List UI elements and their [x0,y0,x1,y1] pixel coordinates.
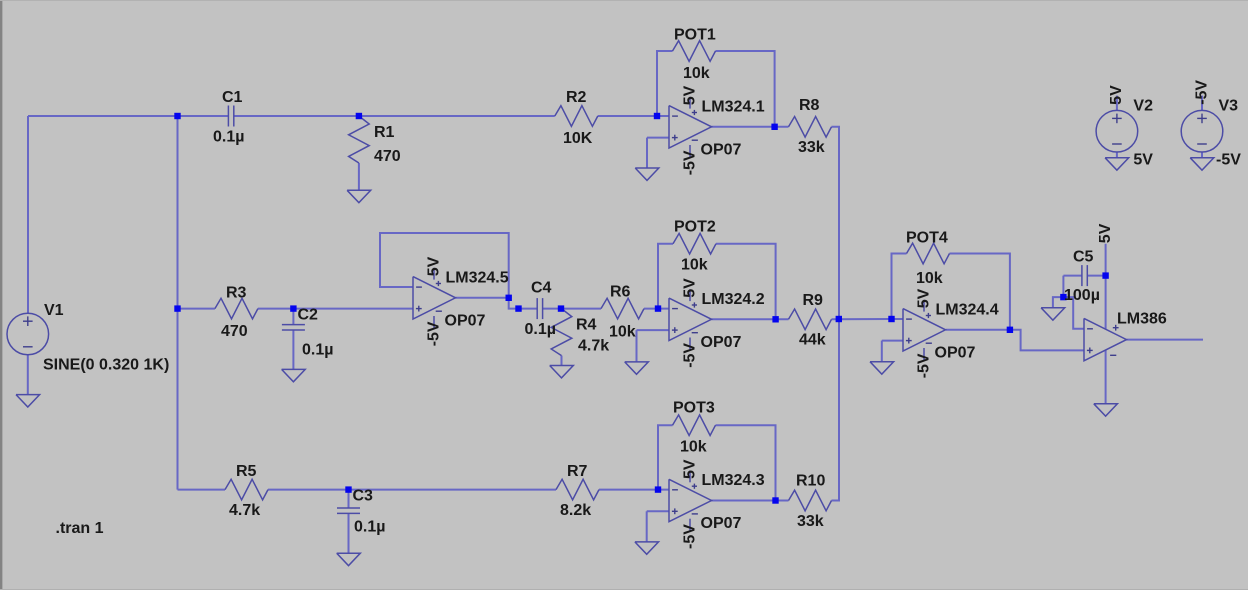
svg-text:-5V: -5V [425,321,442,346]
svg-text:4.7k: 4.7k [229,502,260,519]
svg-text:10k: 10k [609,324,636,341]
svg-text:LM324.3: LM324.3 [702,472,765,489]
svg-text:POT2: POT2 [674,219,716,236]
svg-text:10k: 10k [683,65,710,82]
svg-text:C5: C5 [1073,249,1094,266]
svg-text:33k: 33k [797,513,824,530]
svg-text:C2: C2 [298,307,319,324]
svg-text:LM386: LM386 [1117,311,1167,328]
svg-text:OP07: OP07 [445,312,486,329]
svg-text:V2: V2 [1133,98,1153,115]
svg-text:100µ: 100µ [1064,287,1100,304]
svg-text:V3: V3 [1219,98,1239,115]
svg-text:POT1: POT1 [674,27,716,44]
svg-text:-5V: -5V [1193,80,1210,105]
svg-text:5V: 5V [1108,85,1125,105]
svg-text:POT4: POT4 [906,230,948,247]
svg-text:470: 470 [221,323,248,340]
svg-text:.tran 1: .tran 1 [56,520,104,537]
svg-text:4.7k: 4.7k [578,338,609,355]
svg-text:R7: R7 [567,463,588,480]
svg-text:470: 470 [374,148,401,165]
svg-text:V1: V1 [44,302,64,319]
svg-text:0.1µ: 0.1µ [354,519,385,536]
svg-text:OP07: OP07 [701,141,742,158]
svg-text:-5V: -5V [681,524,698,549]
svg-text:-5V: -5V [681,343,698,368]
svg-text:10k: 10k [681,257,708,274]
svg-text:5V: 5V [1133,152,1153,169]
svg-text:R4: R4 [576,317,597,334]
svg-text:OP07: OP07 [935,344,976,361]
svg-text:33k: 33k [798,139,825,156]
svg-text:LM324.1: LM324.1 [702,98,765,115]
svg-text:POT3: POT3 [673,400,715,417]
svg-text:5V: 5V [1097,223,1114,243]
svg-text:-5V: -5V [1216,152,1241,169]
svg-text:OP07: OP07 [701,515,742,532]
svg-text:C4: C4 [531,280,552,297]
svg-text:10k: 10k [916,270,943,287]
svg-text:0.1µ: 0.1µ [525,321,556,338]
svg-text:10K: 10K [563,130,593,147]
svg-text:5V: 5V [681,278,698,298]
svg-text:LM324.4: LM324.4 [936,301,999,318]
svg-text:R3: R3 [226,285,247,302]
svg-text:C3: C3 [353,488,374,505]
svg-text:R8: R8 [799,97,820,114]
svg-text:5V: 5V [425,256,442,276]
svg-text:0.1µ: 0.1µ [213,129,244,146]
svg-text:SINE(0 0.320 1K): SINE(0 0.320 1K) [43,357,169,374]
svg-text:LM324.2: LM324.2 [702,291,765,308]
svg-text:8.2k: 8.2k [560,502,591,519]
svg-text:R2: R2 [566,89,587,106]
svg-text:R1: R1 [374,124,395,141]
svg-text:R9: R9 [803,292,824,309]
svg-text:5V: 5V [915,288,932,308]
svg-text:OP07: OP07 [701,334,742,351]
svg-text:-5V: -5V [681,150,698,175]
svg-text:10k: 10k [680,439,707,456]
svg-text:R10: R10 [796,473,825,490]
svg-text:C1: C1 [222,89,243,106]
svg-text:44k: 44k [799,332,826,349]
svg-text:R6: R6 [610,284,631,301]
svg-text:-5V: -5V [915,353,932,378]
svg-text:0.1µ: 0.1µ [302,342,333,359]
svg-text:LM324.5: LM324.5 [446,269,509,286]
svg-text:5V: 5V [681,459,698,479]
svg-text:R5: R5 [236,463,257,480]
svg-text:5V: 5V [681,85,698,105]
